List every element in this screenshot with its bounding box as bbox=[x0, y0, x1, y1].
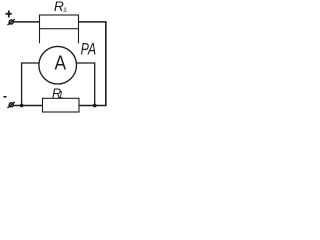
terminal (-) bbox=[8, 102, 15, 108]
wire stub left (from Rs to ammeter branch) bbox=[39, 29, 41, 44]
wire top right bbox=[79, 21, 107, 23]
wire ammeter right branch bbox=[76, 63, 95, 106]
svg-text:1: 1 bbox=[58, 90, 63, 101]
svg-text:š: š bbox=[63, 7, 67, 14]
resistor R1 bbox=[43, 98, 80, 112]
node junction left bbox=[20, 104, 24, 108]
svg-text:R: R bbox=[54, 0, 64, 14]
wire bottom right bbox=[79, 105, 107, 107]
terminal (+) bbox=[8, 19, 15, 25]
wire top left bbox=[13, 21, 39, 23]
wire ammeter left branch bbox=[22, 63, 40, 106]
wire bottom left bbox=[13, 105, 42, 107]
wire stub right (from Rs to ammeter branch) bbox=[78, 29, 80, 44]
plus polarity sign bbox=[6, 11, 12, 18]
minus polarity sign bbox=[3, 96, 6, 98]
node junction right bbox=[93, 104, 97, 108]
svg-text:PA: PA bbox=[81, 41, 97, 59]
wire right vertical bbox=[105, 22, 107, 106]
ammeter PA bbox=[39, 46, 77, 84]
svg-text:A: A bbox=[55, 53, 67, 75]
resistor Rs bbox=[40, 15, 79, 29]
